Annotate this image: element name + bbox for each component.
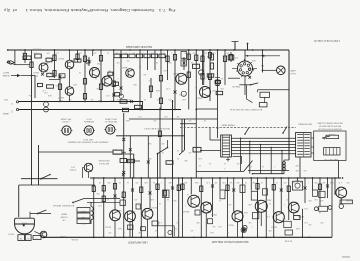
svg-text:( p: ( p: [4, 8, 8, 12]
svg-text:BIAS OSC COIL: BIAS OSC COIL: [324, 158, 338, 161]
svg-text:LAST PILOT: LAST PILOT: [82, 138, 93, 141]
svg-text:d: d: [201, 73, 202, 75]
svg-text:TO MOTOR: TO MOTOR: [341, 202, 350, 204]
svg-text:470: 470: [136, 181, 139, 183]
svg-text:.05: .05: [199, 164, 201, 166]
svg-text:.05: .05: [144, 98, 146, 100]
svg-text:SECOND AMPLIFIER: SECOND AMPLIFIER: [126, 45, 152, 49]
svg-text:.05: .05: [107, 198, 109, 200]
svg-text:470: 470: [237, 162, 240, 164]
svg-text:PNP: PNP: [33, 74, 38, 76]
svg-text:2N1415: 2N1415: [183, 210, 190, 212]
svg-text:220: 220: [139, 204, 142, 206]
svg-text:50: 50: [167, 198, 169, 200]
svg-text:.05: .05: [261, 181, 263, 183]
svg-text:220: 220: [189, 119, 192, 121]
svg-text:.05: .05: [125, 52, 127, 54]
svg-text:5 W: 5 W: [62, 219, 65, 221]
svg-text:50: 50: [153, 181, 155, 183]
svg-text:(TAPE): (TAPE): [2, 112, 9, 115]
svg-text:2N1415: 2N1415: [265, 199, 272, 201]
svg-text:.01: .01: [175, 227, 177, 229]
svg-text:220: 220: [162, 142, 165, 144]
svg-text:.01: .01: [127, 181, 129, 183]
svg-text:ERASE: ERASE: [328, 133, 335, 136]
svg-text:560: 560: [144, 73, 147, 75]
svg-text:+ FRONT: + FRONT: [61, 120, 70, 122]
svg-text:SPEAKER LIGHT IS SHOWN BY TEST: SPEAKER LIGHT IS SHOWN BY TEST READING: [67, 141, 108, 144]
svg-text:250: 250: [27, 237, 30, 239]
svg-text:560: 560: [193, 52, 196, 54]
svg-text:.01: .01: [219, 199, 221, 201]
svg-text:.01: .01: [133, 52, 135, 54]
svg-text:220: 220: [91, 98, 94, 100]
svg-text:220: 220: [94, 52, 97, 54]
svg-text:SA 201: SA 201: [81, 222, 87, 225]
svg-text:.05: .05: [155, 229, 157, 231]
svg-text:470: 470: [191, 229, 194, 231]
svg-text:470: 470: [189, 151, 192, 153]
svg-text:560: 560: [221, 77, 224, 79]
svg-text:50: 50: [95, 77, 97, 79]
svg-text:2N217: 2N217: [228, 224, 234, 226]
svg-text:470: 470: [169, 98, 172, 100]
svg-text:REC/PB SLIDE SWITCH: REC/PB SLIDE SWITCH: [318, 124, 341, 126]
svg-text:1 AMP FUSE IN LINE ON: 1 AMP FUSE IN LINE ON: [314, 39, 341, 42]
svg-text:.1: .1: [171, 52, 172, 54]
svg-text:PNP: PNP: [58, 99, 63, 101]
svg-text:560: 560: [304, 169, 307, 171]
svg-text:220: 220: [309, 223, 312, 225]
svg-text:50: 50: [163, 52, 165, 54]
svg-text:220: 220: [127, 59, 130, 61]
svg-text:SPK 2 LARGE: SPK 2 LARGE: [104, 117, 116, 120]
svg-text:SPKR: SPKR: [21, 222, 27, 224]
svg-text:RECORD/PLAYBACK PRE-AMP: RECORD/PLAYBACK PRE-AMP: [211, 240, 248, 243]
svg-text:RECORD INTERLOCK AND: RECORD INTERLOCK AND: [317, 121, 343, 124]
svg-text:X 10: X 10: [35, 237, 38, 239]
svg-text:560: 560: [185, 181, 188, 183]
svg-text:220: 220: [237, 181, 240, 183]
svg-text:INPUT: INPUT: [2, 71, 9, 73]
svg-text:POWER: POWER: [60, 216, 67, 218]
svg-text:.05: .05: [191, 61, 193, 63]
svg-text:.1: .1: [224, 167, 225, 169]
svg-text:ERASE HEAD: ERASE HEAD: [221, 124, 234, 127]
svg-text:.05: .05: [119, 181, 121, 183]
svg-text:50: 50: [195, 86, 197, 88]
svg-text:470: 470: [229, 203, 232, 205]
svg-text:SHOWN IN PB POSITION: SHOWN IN PB POSITION: [318, 127, 342, 129]
svg-text:.01: .01: [276, 181, 278, 183]
svg-text:No.51: No.51: [289, 72, 295, 74]
svg-text:2N217: 2N217: [32, 71, 39, 73]
svg-text:2N 217: 2N 217: [105, 226, 111, 228]
svg-text:50: 50: [262, 165, 264, 167]
svg-text:SIGNAL: SIGNAL: [1, 74, 9, 77]
svg-text:.1: .1: [274, 165, 275, 167]
svg-text:.1: .1: [161, 181, 162, 183]
svg-text:.1: .1: [308, 181, 309, 183]
svg-text:560: 560: [323, 181, 326, 183]
svg-text:470: 470: [149, 79, 152, 81]
svg-text:.05: .05: [109, 69, 111, 71]
svg-text:.01: .01: [121, 195, 123, 197]
svg-text:TRAN: TRAN: [80, 216, 85, 219]
svg-text:Re 4 SA: Re 4 SA: [284, 240, 292, 243]
svg-text:SPK 1 REAR: SPK 1 REAR: [60, 117, 71, 120]
svg-text:2N 217: 2N 217: [151, 206, 157, 208]
svg-text:220: 220: [109, 231, 112, 233]
svg-text:.1: .1: [117, 77, 118, 79]
svg-text:2N217: 2N217: [57, 57, 64, 59]
svg-text:PIN: PIN: [4, 98, 8, 100]
svg-text:.1: .1: [205, 77, 206, 79]
svg-text:470: 470: [63, 75, 66, 77]
svg-text:2N301: 2N301: [172, 72, 179, 74]
svg-text:a: a: [121, 96, 122, 98]
svg-text:220: 220: [56, 84, 59, 86]
svg-text:REC/PB HEAD: REC/PB HEAD: [298, 123, 312, 126]
svg-text:LINE AMPLIFIER: LINE AMPLIFIER: [128, 241, 148, 244]
svg-text:.1: .1: [284, 203, 285, 205]
svg-text:PM 4TT: PM 4TT: [8, 232, 14, 234]
svg-text:NE-2: NE-2: [295, 179, 299, 181]
svg-text:470: 470: [142, 52, 145, 54]
svg-text:.05: .05: [162, 151, 164, 153]
svg-text:REC/PB SW: REC/PB SW: [98, 159, 109, 161]
svg-text:ACCESSORY JACK AC: ACCESSORY JACK AC: [52, 204, 74, 207]
svg-text:50: 50: [209, 162, 211, 164]
svg-text:x 10: x 10: [42, 89, 45, 91]
svg-text:REC/PB: REC/PB: [193, 146, 200, 148]
svg-text:470: 470: [135, 198, 138, 200]
svg-text:b: b: [183, 94, 184, 96]
svg-text:560: 560: [321, 199, 324, 201]
svg-text:470: 470: [284, 181, 287, 183]
svg-text:RATED: RATED: [60, 213, 67, 216]
svg-text:(4 ohm): (4 ohm): [69, 169, 76, 171]
svg-text:1 W 185: 1 W 185: [71, 238, 78, 240]
svg-text:560: 560: [29, 94, 32, 96]
svg-text:A.C.: A.C.: [110, 99, 114, 102]
svg-text:2N 217: 2N 217: [271, 226, 277, 228]
svg-text:2N217: 2N217: [57, 96, 64, 98]
svg-text:2N301: 2N301: [195, 97, 202, 99]
svg-text:LAMP: LAMP: [290, 69, 296, 72]
svg-text:PNP: PNP: [96, 62, 101, 64]
svg-text:2N44 P41: 2N44 P41: [232, 85, 240, 87]
svg-text:.01: .01: [157, 98, 159, 100]
svg-text:560: 560: [283, 217, 286, 219]
svg-text:REC LEVEL: REC LEVEL: [112, 148, 122, 150]
svg-text:REC/PB(L) TR: REC/PB(L) TR: [104, 120, 116, 122]
svg-text:.01: .01: [224, 162, 226, 164]
svg-text:2N1415: 2N1415: [120, 66, 128, 68]
svg-text:SECTION 2: SECTION 2: [99, 162, 109, 164]
svg-text:AC POWER CORD 105-120V 60 Hz: AC POWER CORD 105-120V 60 Hz: [230, 108, 262, 111]
svg-text:SPEAKERS: SPEAKERS: [83, 120, 93, 123]
svg-text:WV 4B: WV 4B: [47, 83, 53, 85]
svg-text:50: 50: [269, 202, 271, 204]
svg-text:560: 560: [213, 225, 216, 227]
svg-text:.1: .1: [251, 225, 252, 227]
svg-text:2N 217: 2N 217: [127, 227, 133, 229]
svg-text:50: 50: [179, 93, 181, 95]
svg-text:2N217: 2N217: [211, 213, 217, 215]
svg-text:Fig. 7-1 Schematic Diagram,: Fig. 7-1 Schematic Diagram, Record/Playb…: [8, 8, 176, 12]
svg-text:.1: .1: [185, 204, 186, 206]
svg-text:REC/PB SWITCH SECTION 1: REC/PB SWITCH SECTION 1: [144, 127, 170, 129]
svg-text:NA 250: NA 250: [81, 210, 87, 213]
svg-text:.05: .05: [187, 193, 189, 195]
svg-text:50: 50: [227, 231, 229, 233]
svg-text:.01: .01: [177, 157, 179, 159]
svg-text:.1: .1: [211, 64, 212, 66]
svg-text:.01: .01: [199, 65, 201, 67]
svg-text:PILOT: PILOT: [86, 117, 92, 119]
svg-text:4.5 mA: 4.5 mA: [59, 235, 66, 238]
svg-text:WW 858: WW 858: [32, 47, 41, 49]
svg-text:50: 50: [300, 181, 302, 183]
svg-text:.01: .01: [139, 65, 141, 67]
